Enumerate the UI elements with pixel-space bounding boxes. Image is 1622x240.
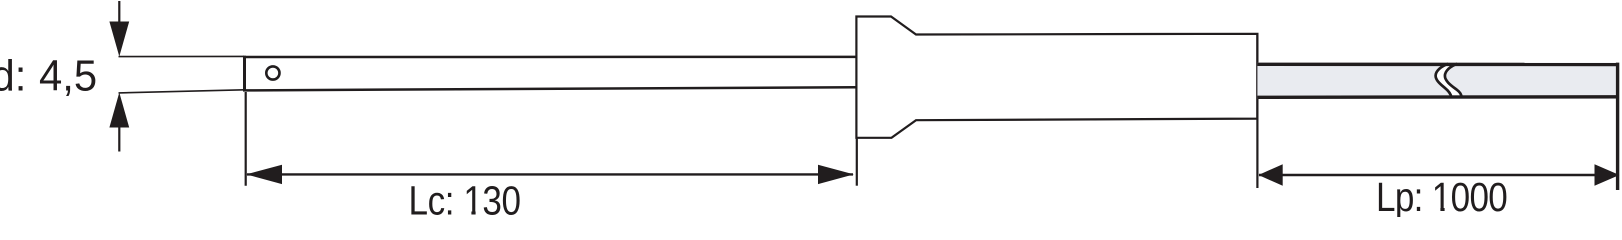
diameter arrow top: [109, 22, 129, 57]
Lc arrow right: [818, 165, 854, 184]
cable fill: [1257, 63, 1618, 99]
cable right end / Lp extension line right: [1616, 63, 1619, 190]
svg-text:Lp: 1000: Lp: 1000: [1376, 174, 1507, 217]
hole in heater body: [266, 66, 279, 79]
svg-text:d:: d:: [0, 52, 26, 101]
cable top border: [1257, 63, 1619, 67]
Lc extension line left: [245, 92, 247, 186]
cable break gap white: [1436, 63, 1462, 97]
svg-text:4,5: 4,5: [39, 52, 97, 101]
label Lc: 130: [409, 178, 521, 224]
Lc dimension line: [247, 173, 853, 175]
Lc extension line right: [856, 137, 858, 186]
cable bottom border: [1257, 95, 1619, 99]
Lp arrow left: [1259, 164, 1283, 186]
cable break curve left: [1436, 64, 1452, 97]
Lp dimension line: [1259, 174, 1617, 176]
diameter arrow bottom: [109, 93, 129, 128]
heater tip tube thin section: [119, 56, 245, 93]
label d: 4,5: [0, 52, 97, 101]
Lc arrow left: [246, 165, 282, 184]
cable break curve right: [1445, 64, 1462, 97]
diameter dimension line vertical: [118, 1, 120, 152]
connector body: [856, 17, 1257, 138]
label Lp: 1000: [1376, 174, 1507, 220]
svg-text:Lc: 130: Lc: 130: [409, 178, 521, 217]
heater main body outline: [243, 56, 246, 92]
Lp arrow right: [1595, 164, 1620, 186]
Lp extension line left: [1256, 34, 1258, 188]
